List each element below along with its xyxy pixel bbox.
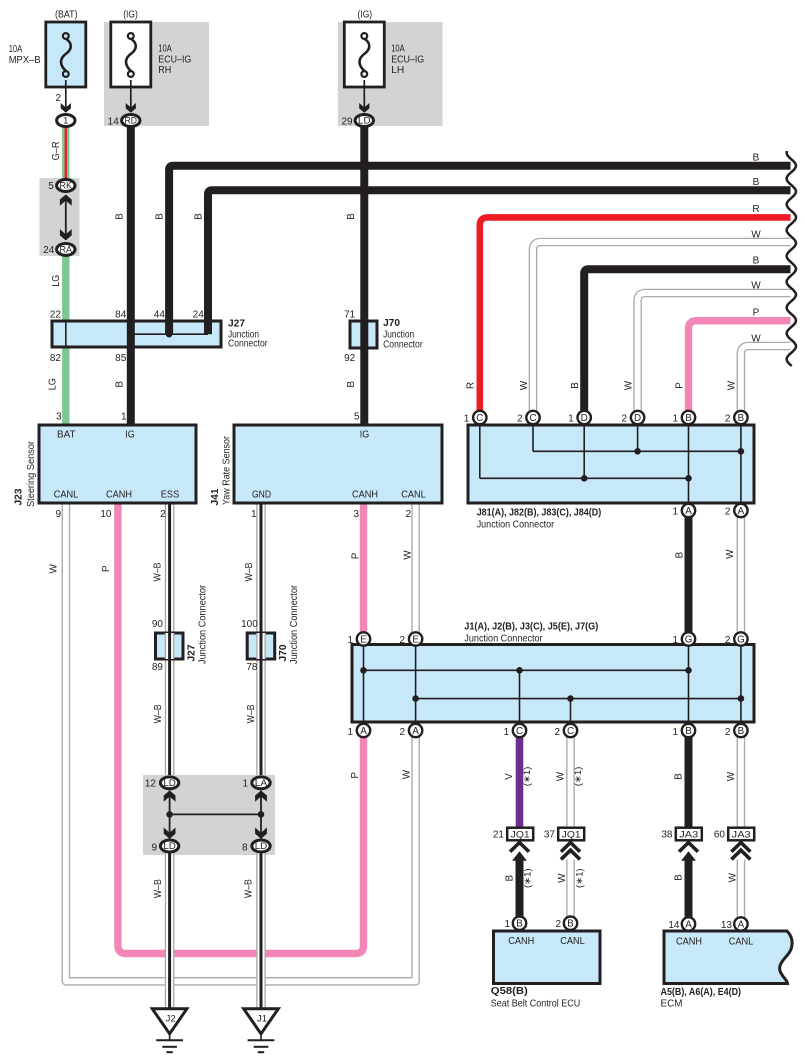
svg-text:82: 82 xyxy=(50,353,62,364)
svg-text:G: G xyxy=(685,635,693,646)
svg-text:B: B xyxy=(567,919,574,930)
svg-text:W: W xyxy=(556,771,567,781)
svg-text:W: W xyxy=(725,549,736,559)
svg-text:BAT: BAT xyxy=(57,428,76,440)
svg-text:10: 10 xyxy=(100,509,112,520)
svg-text:3: 3 xyxy=(353,509,359,520)
svg-text:C: C xyxy=(476,413,483,424)
svg-text:2: 2 xyxy=(555,919,561,930)
svg-text:A: A xyxy=(412,726,419,737)
svg-text:A: A xyxy=(360,726,367,737)
svg-text:ECM: ECM xyxy=(661,999,683,1010)
svg-text:MPX–B: MPX–B xyxy=(9,54,41,66)
svg-text:W–B: W–B xyxy=(246,704,257,723)
svg-text:71: 71 xyxy=(344,310,356,321)
svg-text:37: 37 xyxy=(544,829,556,840)
svg-text:JQ1: JQ1 xyxy=(562,830,581,840)
svg-text:1: 1 xyxy=(672,727,678,738)
svg-text:1: 1 xyxy=(121,412,127,423)
svg-text:RH: RH xyxy=(158,64,171,76)
svg-text:GND: GND xyxy=(252,489,271,501)
svg-text:ESS: ESS xyxy=(161,489,180,501)
svg-text:90: 90 xyxy=(152,619,164,630)
svg-text:J70: J70 xyxy=(383,318,400,329)
svg-text:P: P xyxy=(350,772,361,779)
svg-text:JA3: JA3 xyxy=(732,830,751,840)
svg-text:8: 8 xyxy=(242,842,248,853)
svg-text:CANH: CANH xyxy=(352,489,378,501)
svg-text:E: E xyxy=(412,635,419,646)
svg-text:2: 2 xyxy=(725,414,731,425)
svg-text:24: 24 xyxy=(193,310,205,321)
svg-text:B: B xyxy=(570,382,581,389)
svg-text:E: E xyxy=(360,635,367,646)
svg-text:W: W xyxy=(726,771,737,781)
svg-text:A: A xyxy=(738,506,745,517)
svg-text:84: 84 xyxy=(115,310,127,321)
svg-text:21: 21 xyxy=(493,829,505,840)
svg-text:12: 12 xyxy=(145,779,157,790)
svg-text:3: 3 xyxy=(56,412,62,423)
svg-text:1: 1 xyxy=(347,635,353,646)
svg-text:9: 9 xyxy=(55,509,61,520)
svg-text:1: 1 xyxy=(251,509,257,520)
svg-text:44: 44 xyxy=(154,310,166,321)
svg-text:(IG): (IG) xyxy=(358,8,373,20)
svg-text:Q58(B): Q58(B) xyxy=(491,986,528,997)
svg-text:CANH: CANH xyxy=(106,489,132,501)
svg-text:Connector: Connector xyxy=(228,339,268,350)
svg-text:24: 24 xyxy=(43,245,55,256)
svg-text:B: B xyxy=(685,726,692,737)
svg-text:B: B xyxy=(738,413,745,424)
svg-text:CANL: CANL xyxy=(560,935,585,947)
svg-text:2: 2 xyxy=(517,414,523,425)
svg-text:W–B: W–B xyxy=(243,879,254,898)
svg-text:J2: J2 xyxy=(166,1014,176,1025)
svg-text:V: V xyxy=(504,773,515,780)
svg-text:2: 2 xyxy=(725,507,731,518)
svg-text:J1(A), J2(B), J3(C), J5(E), J7: J1(A), J2(B), J3(C), J5(E), J7(G) xyxy=(464,621,598,632)
svg-text:B: B xyxy=(194,213,205,220)
svg-text:Junction Connector: Junction Connector xyxy=(477,520,555,531)
svg-text:1: 1 xyxy=(347,727,353,738)
svg-text:W: W xyxy=(403,550,414,560)
svg-text:2: 2 xyxy=(725,635,731,646)
svg-text:W–B: W–B xyxy=(153,562,164,581)
svg-text:B: B xyxy=(738,726,745,737)
svg-text:60: 60 xyxy=(714,829,726,840)
svg-text:2: 2 xyxy=(400,727,406,738)
svg-text:B: B xyxy=(114,213,125,220)
svg-text:W: W xyxy=(751,281,761,292)
svg-text:14: 14 xyxy=(668,920,680,931)
svg-text:W: W xyxy=(751,334,761,345)
svg-text:LG: LG xyxy=(51,275,62,287)
svg-text:J70: J70 xyxy=(278,644,289,661)
svg-text:89: 89 xyxy=(152,662,164,673)
svg-text:2: 2 xyxy=(725,727,731,738)
svg-text:W: W xyxy=(623,380,634,390)
svg-text:P: P xyxy=(674,382,685,389)
svg-text:LH: LH xyxy=(391,64,404,76)
svg-text:B: B xyxy=(753,152,760,163)
svg-text:(∗1): (∗1) xyxy=(522,767,533,787)
svg-text:14: 14 xyxy=(108,116,120,127)
svg-text:A: A xyxy=(685,506,692,517)
svg-text:2: 2 xyxy=(55,93,61,104)
svg-text:5: 5 xyxy=(48,181,54,192)
svg-text:W–B: W–B xyxy=(153,879,164,898)
svg-text:J81(A), J82(B), J83(C), J84(D): J81(A), J82(B), J83(C), J84(D) xyxy=(477,508,602,519)
svg-text:J27: J27 xyxy=(228,318,245,329)
svg-text:(IG): (IG) xyxy=(123,8,138,20)
svg-text:29: 29 xyxy=(341,116,353,127)
svg-text:B: B xyxy=(346,213,357,220)
svg-text:22: 22 xyxy=(50,310,62,321)
svg-text:B: B xyxy=(674,773,685,780)
svg-text:LD: LD xyxy=(358,116,371,126)
svg-text:C: C xyxy=(529,413,536,424)
svg-text:LD: LD xyxy=(255,841,268,851)
svg-text:W: W xyxy=(751,230,761,241)
svg-text:2: 2 xyxy=(622,414,628,425)
svg-text:CANL: CANL xyxy=(54,489,79,501)
svg-text:Seat Belt Control ECU: Seat Belt Control ECU xyxy=(491,999,581,1010)
svg-text:2: 2 xyxy=(405,509,411,520)
svg-text:D: D xyxy=(634,413,641,424)
svg-text:Junction Connector: Junction Connector xyxy=(289,584,300,664)
svg-text:W–B: W–B xyxy=(244,562,255,581)
svg-text:W: W xyxy=(557,873,568,883)
svg-text:1: 1 xyxy=(672,414,678,425)
svg-text:RK: RK xyxy=(60,181,73,191)
svg-text:J1: J1 xyxy=(257,1014,267,1025)
svg-text:LD: LD xyxy=(163,778,176,788)
svg-text:B: B xyxy=(114,381,125,388)
svg-text:38: 38 xyxy=(661,829,673,840)
svg-text:B: B xyxy=(155,213,166,220)
svg-text:B: B xyxy=(685,413,692,424)
svg-text:W: W xyxy=(401,769,412,779)
svg-text:13: 13 xyxy=(721,920,733,931)
svg-text:1: 1 xyxy=(63,116,68,126)
svg-text:Steering Sensor: Steering Sensor xyxy=(26,440,37,507)
svg-text:J41: J41 xyxy=(210,488,221,505)
svg-text:9: 9 xyxy=(151,842,157,853)
svg-text:2: 2 xyxy=(554,727,560,738)
svg-text:A: A xyxy=(685,920,692,931)
svg-text:78: 78 xyxy=(246,662,258,673)
svg-text:J27: J27 xyxy=(187,644,198,661)
svg-text:LG: LG xyxy=(48,378,59,390)
svg-text:R: R xyxy=(752,204,759,215)
svg-text:CANH: CANH xyxy=(508,935,534,947)
svg-text:1: 1 xyxy=(672,507,678,518)
svg-text:W: W xyxy=(49,564,60,574)
svg-text:RA: RA xyxy=(60,245,73,255)
svg-text:B: B xyxy=(346,381,357,388)
svg-text:B: B xyxy=(505,875,516,882)
svg-text:JQ1: JQ1 xyxy=(511,830,530,840)
svg-text:100: 100 xyxy=(241,619,258,630)
svg-text:1: 1 xyxy=(503,727,509,738)
svg-text:Junction Connector: Junction Connector xyxy=(198,584,209,664)
svg-text:CANL: CANL xyxy=(401,489,426,501)
svg-text:C: C xyxy=(567,726,574,737)
svg-text:G–R: G–R xyxy=(51,141,62,160)
svg-text:W–B: W–B xyxy=(153,704,164,723)
svg-text:85: 85 xyxy=(115,353,127,364)
svg-text:LA: LA xyxy=(255,778,268,788)
svg-text:P: P xyxy=(101,565,112,572)
svg-text:Yaw Rate Sensor: Yaw Rate Sensor xyxy=(222,435,233,505)
svg-text:2: 2 xyxy=(160,509,166,520)
svg-text:B: B xyxy=(753,256,760,267)
svg-text:Connector: Connector xyxy=(383,340,423,351)
svg-text:J23: J23 xyxy=(14,488,25,505)
svg-text:IG: IG xyxy=(360,428,370,440)
svg-text:C: C xyxy=(516,726,523,737)
svg-text:B: B xyxy=(674,874,685,881)
svg-text:LD: LD xyxy=(163,841,176,851)
svg-text:1: 1 xyxy=(672,635,678,646)
svg-text:1: 1 xyxy=(242,779,248,790)
svg-text:P: P xyxy=(753,308,760,319)
svg-text:1: 1 xyxy=(504,919,510,930)
svg-text:JA3: JA3 xyxy=(679,830,698,840)
svg-text:Junction Connector: Junction Connector xyxy=(464,634,543,645)
svg-text:(∗1): (∗1) xyxy=(575,868,586,888)
svg-text:W: W xyxy=(727,872,738,882)
svg-text:1: 1 xyxy=(568,414,574,425)
svg-text:RD: RD xyxy=(125,116,138,126)
svg-text:B: B xyxy=(516,919,523,930)
svg-text:5: 5 xyxy=(354,412,360,423)
svg-text:(∗1): (∗1) xyxy=(573,767,584,787)
svg-text:P: P xyxy=(351,552,362,559)
svg-text:B: B xyxy=(753,177,760,188)
svg-text:(BAT): (BAT) xyxy=(55,8,78,20)
svg-text:A5(B), A6(A), E4(D): A5(B), A6(A), E4(D) xyxy=(661,987,742,998)
svg-text:CANH: CANH xyxy=(676,936,702,948)
svg-text:CANL: CANL xyxy=(729,936,754,948)
svg-text:W: W xyxy=(727,380,738,390)
svg-text:(∗1): (∗1) xyxy=(522,868,533,888)
svg-text:B: B xyxy=(674,552,685,559)
svg-text:IG: IG xyxy=(125,428,135,440)
svg-text:D: D xyxy=(581,413,588,424)
svg-text:W: W xyxy=(519,380,530,390)
svg-text:A: A xyxy=(738,920,745,931)
svg-text:1: 1 xyxy=(464,414,470,425)
svg-text:92: 92 xyxy=(344,353,356,364)
svg-text:2: 2 xyxy=(400,635,406,646)
svg-text:R: R xyxy=(466,382,477,389)
svg-text:G: G xyxy=(737,635,745,646)
